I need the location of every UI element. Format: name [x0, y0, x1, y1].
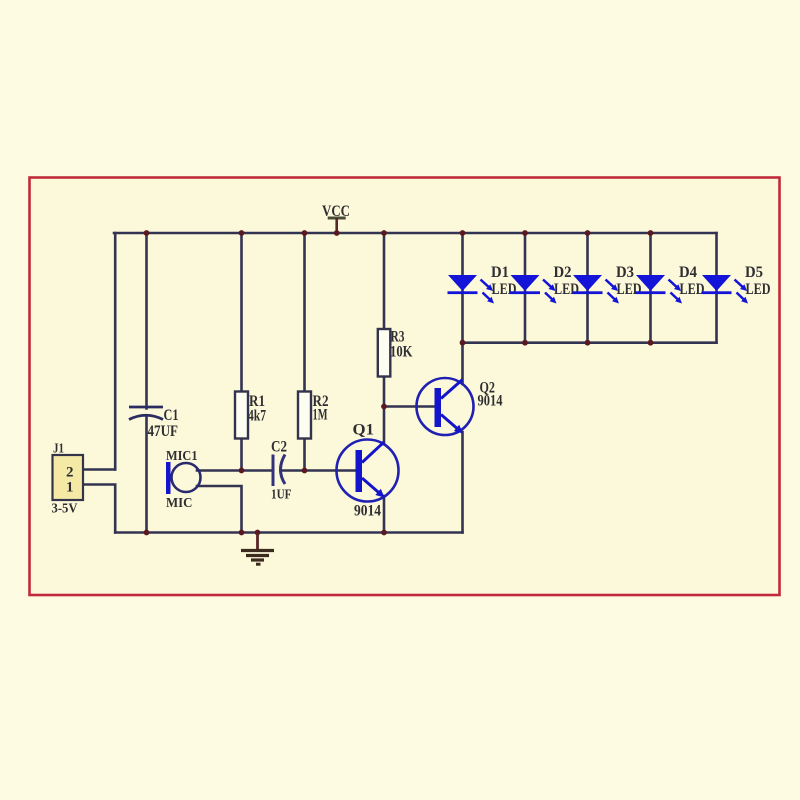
svg-text:C1: C1 — [164, 407, 179, 424]
svg-text:D3: D3 — [616, 264, 634, 281]
svg-text:MIC: MIC — [166, 496, 193, 511]
svg-text:MIC1: MIC1 — [166, 449, 198, 464]
svg-text:D5: D5 — [745, 264, 763, 281]
svg-text:LED: LED — [680, 281, 705, 298]
svg-text:3-5V: 3-5V — [52, 501, 78, 516]
svg-text:9014: 9014 — [478, 393, 503, 410]
svg-text:1UF: 1UF — [271, 487, 292, 502]
svg-text:LED: LED — [617, 281, 642, 298]
svg-text:LED: LED — [746, 281, 771, 298]
svg-text:4k7: 4k7 — [248, 408, 266, 425]
svg-text:D1: D1 — [491, 264, 509, 281]
svg-text:1M: 1M — [313, 407, 328, 424]
svg-text:D2: D2 — [554, 264, 572, 281]
svg-text:Q1: Q1 — [353, 422, 375, 439]
svg-text:J1: J1 — [53, 441, 64, 456]
svg-text:2: 2 — [66, 465, 74, 481]
svg-text:47UF: 47UF — [148, 423, 179, 440]
svg-text:VCC: VCC — [322, 203, 350, 220]
svg-text:C2: C2 — [271, 439, 287, 456]
svg-text:9014: 9014 — [354, 503, 381, 520]
svg-text:10K: 10K — [390, 344, 413, 361]
svg-text:LED: LED — [554, 281, 579, 298]
svg-text:D4: D4 — [679, 264, 697, 281]
svg-text:LED: LED — [492, 281, 517, 298]
svg-text:1: 1 — [66, 480, 74, 496]
